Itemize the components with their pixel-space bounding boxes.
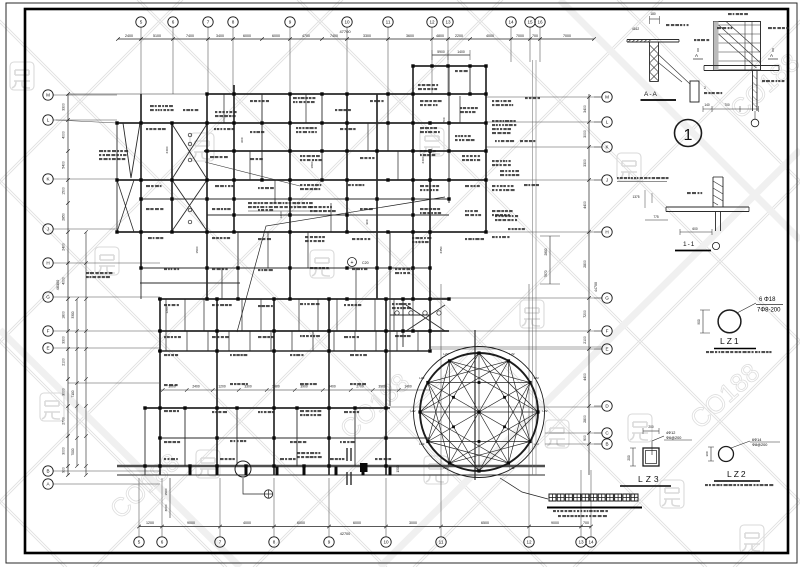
column line x=297 <box>296 408 298 466</box>
column line x=185 <box>184 408 186 466</box>
svg-text:LZ2: LZ2 <box>419 442 425 446</box>
svg-text:2400: 2400 <box>62 243 66 251</box>
grid bubble right M <box>602 92 612 102</box>
svg-text:300: 300 <box>705 451 709 456</box>
1-1 wall hatched <box>712 177 714 207</box>
svg-text:6: 6 <box>172 20 175 25</box>
grid leader <box>54 228 118 230</box>
corridor joist ticks rows 331-349 <box>165 331 167 351</box>
note above 1-1 <box>617 177 619 179</box>
svg-text:2100: 2100 <box>62 358 66 366</box>
svg-text:10: 10 <box>383 540 389 545</box>
center node <box>477 410 480 413</box>
beam y=180 <box>117 179 486 181</box>
title note 2 <box>558 515 561 517</box>
title pseudo CJK <box>549 494 556 501</box>
svg-text:B: B <box>605 442 608 447</box>
svg-text:C20: C20 <box>362 261 369 265</box>
svg-text:2200: 2200 <box>455 34 463 38</box>
A-A leaders to stirrup detail <box>659 63 682 82</box>
grid bubble bottom 13 <box>576 537 586 547</box>
shaft diagonals lower left <box>117 180 134 232</box>
grid bubble left J <box>43 224 53 234</box>
svg-text:6000: 6000 <box>297 521 305 525</box>
double tick marks near bottom beam <box>346 448 348 461</box>
svg-text:2100: 2100 <box>583 336 587 344</box>
grid bubble top 16 <box>535 17 545 27</box>
column line x=388 <box>387 94 389 151</box>
svg-text:5: 5 <box>138 540 141 545</box>
svg-text:1400: 1400 <box>457 50 465 54</box>
svg-text:F: F <box>47 329 50 334</box>
grid leader <box>510 28 512 63</box>
svg-text:4800: 4800 <box>436 34 444 38</box>
column line x=390 <box>389 232 391 406</box>
grid bubble bottom 9 <box>324 537 334 547</box>
svg-text:H: H <box>46 261 49 266</box>
grid line x=475 <box>474 330 476 480</box>
svg-text:Φ18: Φ18 <box>764 297 776 303</box>
grid bubble bottom 11 <box>436 537 446 547</box>
svg-text:2400: 2400 <box>165 146 169 153</box>
secondary joists upper block <box>249 151 251 180</box>
bubble leader <box>273 531 275 537</box>
grid bubble left B <box>43 466 53 476</box>
title note 1 <box>553 510 556 512</box>
svg-text:2400: 2400 <box>125 34 133 38</box>
svg-text:1800: 1800 <box>310 161 314 168</box>
svg-text:8: 8 <box>273 540 276 545</box>
svg-text:44700: 44700 <box>594 282 598 292</box>
svg-text:775: 775 <box>653 215 659 219</box>
svg-text:3600: 3600 <box>406 34 414 38</box>
joist verticals rows 299-331 <box>165 299 167 331</box>
svg-text:12: 12 <box>526 540 532 545</box>
svg-text:LZ2: LZ2 <box>443 466 449 470</box>
svg-text:1200: 1200 <box>218 385 226 389</box>
svg-text:5100: 5100 <box>153 34 161 38</box>
grid bubble left A <box>43 479 53 489</box>
stair wall below <box>752 71 754 112</box>
svg-text:1200: 1200 <box>146 521 154 525</box>
svg-text:3300: 3300 <box>71 311 75 318</box>
beam y=232 <box>117 231 486 233</box>
column line x=238 <box>237 232 239 299</box>
detail bubble small <box>751 119 759 127</box>
grid bubble top 5 <box>136 17 146 27</box>
svg-text:11: 11 <box>439 540 444 545</box>
svg-text:3000: 3000 <box>409 521 417 525</box>
svg-text:4400: 4400 <box>583 373 587 381</box>
svg-text:G: G <box>46 295 50 300</box>
grid bubble right F <box>602 326 612 336</box>
svg-text:1375: 1375 <box>632 195 639 199</box>
column line x=274 <box>273 299 275 475</box>
svg-text:7000: 7000 <box>516 34 524 38</box>
svg-text:1500: 1500 <box>195 246 199 253</box>
grid bubble left H <box>43 258 53 268</box>
grid bubble bottom 14 <box>586 537 596 547</box>
outer circle <box>414 347 545 478</box>
column ticks below bottom beam <box>189 467 192 476</box>
svg-text:5: 5 <box>140 20 143 25</box>
svg-text:7000: 7000 <box>563 34 571 38</box>
svg-text:2800: 2800 <box>583 260 587 268</box>
grid bubble bottom 7 <box>215 537 225 547</box>
bottom edge line y=475 <box>117 474 545 476</box>
stair cross brace bay 2 <box>172 180 207 231</box>
svg-text:Φ8@200: Φ8@200 <box>752 443 767 447</box>
svg-text:1200: 1200 <box>279 211 283 218</box>
column line x=145 <box>144 408 146 475</box>
beam y=315 partial <box>390 314 430 316</box>
inner vertical dims x=550 <box>549 236 551 284</box>
svg-text:3300: 3300 <box>62 103 66 111</box>
svg-text:A: A <box>695 53 698 58</box>
label KL250 <box>666 24 669 26</box>
1-1 slab <box>666 206 749 208</box>
1-1 labels <box>687 192 691 194</box>
ring beam circle <box>420 353 538 471</box>
grid leader <box>54 178 118 180</box>
grid leader <box>172 28 174 95</box>
grid leader <box>539 28 541 63</box>
bubble leader <box>138 531 140 537</box>
column line x=207 <box>206 94 208 299</box>
svg-text:16: 16 <box>537 20 543 25</box>
grid leader <box>346 28 348 95</box>
stair dim line <box>703 108 759 110</box>
column line x=117 <box>116 123 118 232</box>
grid bubble bottom 10 <box>381 537 391 547</box>
svg-text:2: 2 <box>704 86 706 90</box>
A-A dim ticks <box>650 18 660 20</box>
stair slab bottom <box>704 65 779 67</box>
svg-text:1800: 1800 <box>62 311 66 319</box>
LZ2 note <box>705 484 708 486</box>
beam y=215 <box>207 214 449 216</box>
svg-text:F: F <box>606 329 609 334</box>
grid bubble right K <box>602 142 612 152</box>
leader from stair bay <box>205 162 300 186</box>
svg-text:2400: 2400 <box>421 156 425 163</box>
lower-left inner dim chain <box>169 478 171 518</box>
beam chord y=123 <box>117 122 486 124</box>
grid bubble right L <box>602 117 612 127</box>
ring nodes <box>536 410 539 413</box>
highlight circle on bottom column <box>235 461 251 477</box>
svg-text:4162: 4162 <box>632 27 639 31</box>
grid line x=529 <box>528 284 530 480</box>
svg-text:2700: 2700 <box>62 417 66 425</box>
grid bubble top 11 <box>383 17 393 27</box>
beam top chord y=94 <box>68 93 207 95</box>
stair detail body <box>714 22 761 71</box>
svg-text:600: 600 <box>240 137 244 142</box>
concrete mark circle C20 <box>348 258 357 267</box>
svg-text:13: 13 <box>578 540 584 545</box>
column line x=449 <box>448 66 450 203</box>
bubble leader <box>328 531 330 537</box>
top secondary dimension <box>432 54 470 56</box>
svg-text:700: 700 <box>724 103 730 107</box>
grid bubble bottom 8 <box>269 537 279 547</box>
grid bubble top 15 <box>525 17 535 27</box>
bottom grid leaders <box>138 478 140 531</box>
grid bubble left G <box>43 292 53 302</box>
svg-text:1-1: 1-1 <box>683 241 695 248</box>
svg-text:5400: 5400 <box>62 161 66 169</box>
grid bubble left L <box>43 115 53 125</box>
grid leader <box>232 28 234 95</box>
LZ1 note <box>706 351 709 353</box>
column line x=217 <box>216 299 218 475</box>
grid leader <box>431 28 433 95</box>
svg-text:6: 6 <box>161 540 164 545</box>
svg-text:900: 900 <box>583 435 587 441</box>
svg-text:G: G <box>605 296 609 301</box>
svg-text:14: 14 <box>508 20 514 25</box>
beam y=408 <box>145 407 390 409</box>
grid bubble top 7 <box>203 17 213 27</box>
svg-text:E: E <box>46 346 49 351</box>
svg-text:LZ2: LZ2 <box>509 466 515 470</box>
svg-text:4000: 4000 <box>62 131 66 139</box>
svg-text:42700: 42700 <box>340 532 351 536</box>
svg-text:4000: 4000 <box>486 34 494 38</box>
double grid line x=533 <box>532 60 534 475</box>
svg-text:Φ6@200: Φ6@200 <box>666 436 681 440</box>
svg-text:900: 900 <box>365 219 369 224</box>
column dots <box>205 92 208 95</box>
1-1 dim 600 <box>680 231 712 233</box>
grid bubble right D <box>602 401 612 411</box>
top labels above stair <box>728 13 732 15</box>
shaft V brace left <box>123 123 131 178</box>
beam y=283 partial <box>140 282 240 284</box>
grid bubble top 12 <box>427 17 437 27</box>
svg-text:J: J <box>606 178 608 183</box>
svg-text:700: 700 <box>442 117 446 122</box>
grid bubble left F <box>43 326 53 336</box>
svg-text:L: L <box>47 118 50 123</box>
column line x=430 <box>429 151 431 349</box>
svg-text:3400: 3400 <box>583 105 587 113</box>
grid bubble bottom 6 <box>157 537 167 547</box>
svg-text:7400: 7400 <box>186 34 194 38</box>
grid bubble left M <box>43 90 53 100</box>
label 2T12 <box>717 27 721 29</box>
bubble leader <box>385 531 387 537</box>
svg-text:6000: 6000 <box>272 34 280 38</box>
svg-text:47700: 47700 <box>339 29 351 34</box>
beam top bump chord <box>413 65 486 67</box>
svg-text:9000: 9000 <box>551 521 559 525</box>
svg-text:7: 7 <box>207 20 210 25</box>
svg-text:3000: 3000 <box>62 388 66 396</box>
bubble leader <box>528 531 530 537</box>
svg-text:3000: 3000 <box>164 504 168 511</box>
LZ1 column circle <box>718 310 741 333</box>
svg-text:3300: 3300 <box>244 385 252 389</box>
svg-text:7000: 7000 <box>71 448 75 455</box>
svg-text:2400: 2400 <box>192 385 200 389</box>
grid bubble top 8 <box>228 17 238 27</box>
svg-text:9: 9 <box>328 540 331 545</box>
grid leader <box>447 28 449 95</box>
svg-text:LZ2: LZ2 <box>727 469 748 479</box>
svg-text:6000: 6000 <box>353 521 361 525</box>
grid bubble bottom 5 <box>134 537 144 547</box>
svg-text:LZ2: LZ2 <box>410 409 416 413</box>
svg-text:200: 200 <box>648 425 654 429</box>
top dimension line <box>118 38 594 40</box>
LZ3 left dim <box>632 448 634 466</box>
1-1 wall below slab <box>715 212 717 232</box>
svg-text:3900: 3900 <box>378 385 386 389</box>
svg-text:2800: 2800 <box>583 415 587 423</box>
leader to section bubble A <box>243 478 264 494</box>
svg-text:2850: 2850 <box>62 213 66 221</box>
grid bubble right B <box>602 439 612 449</box>
svg-text:5900: 5900 <box>437 50 445 54</box>
inner nodes <box>503 425 506 428</box>
svg-text:4400: 4400 <box>583 201 587 209</box>
svg-text:4700: 4700 <box>302 34 310 38</box>
svg-text:3300: 3300 <box>583 159 587 167</box>
svg-text:LZ3: LZ3 <box>638 474 662 484</box>
grid leader <box>54 470 161 472</box>
leader note L1-9 <box>237 197 445 332</box>
svg-text:700: 700 <box>583 521 589 525</box>
grid leader <box>140 28 142 95</box>
left chain x=77 lower <box>76 299 78 466</box>
left inner dimension chain <box>85 232 87 475</box>
inner dim row y=390 <box>160 389 430 391</box>
LZ1 dim <box>702 310 704 333</box>
column line x=386 <box>385 299 387 475</box>
LZ2 leader <box>731 441 750 448</box>
beam y=438 <box>158 437 430 439</box>
grid leader <box>54 296 161 298</box>
svg-text:3400: 3400 <box>216 34 224 38</box>
label 7T8 <box>694 39 696 41</box>
svg-text:7100: 7100 <box>71 390 75 397</box>
bubble leader <box>219 531 221 537</box>
svg-text:LZ2: LZ2 <box>443 352 449 356</box>
svg-text:7670: 7670 <box>544 270 548 277</box>
svg-text:H: H <box>605 230 608 235</box>
svg-text:3000: 3000 <box>62 447 66 455</box>
grid bubble left E <box>43 343 53 353</box>
svg-text:L: L <box>606 120 609 125</box>
svg-text:200: 200 <box>627 455 631 461</box>
svg-text:7: 7 <box>219 540 222 545</box>
LZ3 dim 200 top <box>643 430 659 432</box>
grid leader <box>54 262 161 264</box>
svg-text:700: 700 <box>532 34 538 38</box>
LZ1 leader <box>737 303 756 313</box>
label right <box>762 80 765 82</box>
svg-text:46300: 46300 <box>56 280 60 291</box>
grid leader <box>54 94 118 96</box>
stair cross brace bay 1 <box>172 124 207 179</box>
grid leader <box>289 28 291 95</box>
svg-text:1: 1 <box>684 127 693 144</box>
svg-text:9000: 9000 <box>187 521 195 525</box>
svg-text:8: 8 <box>232 20 235 25</box>
LZ2 dim <box>710 447 712 461</box>
beam y=151 <box>204 150 486 152</box>
small circles in stair bay <box>188 133 192 137</box>
svg-text:+: + <box>351 260 354 266</box>
svg-text:15: 15 <box>527 20 533 25</box>
LZ3 leader <box>652 436 664 455</box>
svg-text:6Φ14: 6Φ14 <box>752 438 761 442</box>
svg-text:7Φ8-200: 7Φ8-200 <box>757 308 781 314</box>
svg-text:1500: 1500 <box>396 465 400 472</box>
bubble small <box>712 242 719 249</box>
svg-text:180: 180 <box>650 12 656 16</box>
X brace bay above circle <box>406 305 445 331</box>
column line x=141 <box>140 94 142 268</box>
grid bubble top 14 <box>506 17 516 27</box>
thin line y=383 left <box>68 382 160 384</box>
svg-text:6500: 6500 <box>481 521 489 525</box>
svg-text:4000: 4000 <box>243 521 251 525</box>
svg-text:10: 10 <box>344 20 350 25</box>
beam y=199 <box>140 198 449 200</box>
note text 2 lines <box>248 202 252 204</box>
beam y=331 <box>158 330 449 332</box>
column line x=172 <box>171 123 173 232</box>
bottom edge beam y=466 <box>117 465 545 468</box>
black column block <box>360 463 368 472</box>
stirrup rect detail <box>690 81 699 102</box>
grid leader <box>387 28 389 95</box>
svg-text:11: 11 <box>386 20 391 25</box>
svg-text:4Φ12: 4Φ12 <box>666 431 675 435</box>
svg-text:M: M <box>605 95 609 100</box>
grid bubble top 9 <box>285 17 295 27</box>
svg-text:M: M <box>46 93 50 98</box>
svg-text:7200: 7200 <box>583 310 587 318</box>
svg-text:E: E <box>605 347 608 352</box>
grid bubble right E <box>602 344 612 354</box>
svg-text:LZ2: LZ2 <box>534 442 540 446</box>
title underline <box>547 507 642 509</box>
svg-text:LZ1: LZ1 <box>720 336 741 346</box>
grid bubble right H <box>602 227 612 237</box>
svg-text:3000: 3000 <box>583 130 587 138</box>
grid line y=347 right <box>430 346 602 348</box>
label 2T12 right <box>768 27 772 29</box>
svg-text:1500: 1500 <box>62 187 66 195</box>
svg-text:B: B <box>46 469 49 474</box>
column line x=355 <box>354 408 356 466</box>
svg-text:13: 13 <box>445 20 451 25</box>
svg-text:600: 600 <box>692 227 698 231</box>
bubble leader <box>580 531 582 537</box>
column line x=329 <box>328 299 330 475</box>
bottom dimension line <box>139 526 591 528</box>
detail number bubble 1 <box>675 120 702 147</box>
column line x=347 <box>346 94 348 232</box>
beam y=299 <box>158 298 449 300</box>
svg-text:6000: 6000 <box>243 34 251 38</box>
bubble leader <box>161 531 163 537</box>
beam y=351 <box>158 350 430 352</box>
